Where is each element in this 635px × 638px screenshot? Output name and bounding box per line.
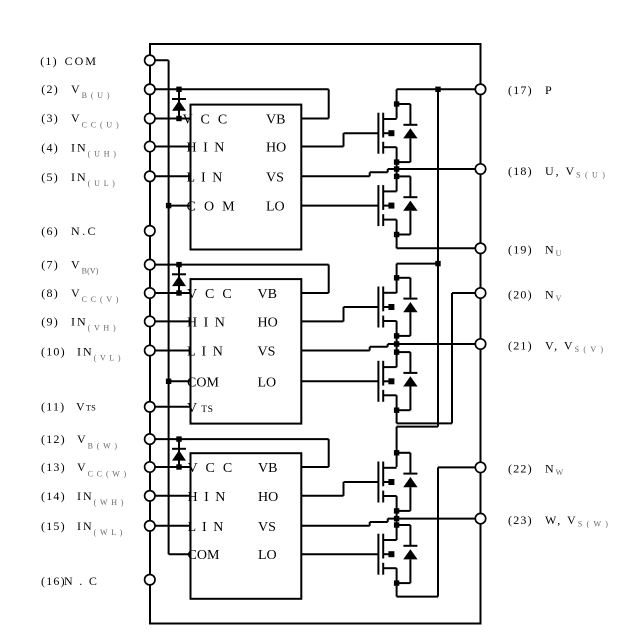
svg-text:COM: COM: [187, 375, 219, 390]
svg-text:H I N: H I N: [187, 315, 226, 330]
svg-text:(5)IN( U L ): (5)IN( U L ): [41, 170, 115, 188]
svg-text:(8)VC C ( V ): (8)VC C ( V ): [41, 286, 119, 304]
svg-text:(21)V, VS ( V ): (21)V, VS ( V ): [508, 338, 604, 354]
svg-text:V C C: V C C: [188, 461, 235, 476]
svg-text:COM: COM: [188, 548, 220, 563]
svg-text:(19)NU: (19)NU: [508, 243, 562, 259]
svg-text:LO: LO: [266, 200, 285, 215]
svg-text:(9)IN( V H ): (9)IN( V H ): [41, 314, 116, 332]
svg-text:(11)VTS: (11)VTS: [41, 400, 96, 414]
svg-text:(6)N.C: (6)N.C: [41, 224, 98, 238]
svg-text:C O M: C O M: [187, 200, 237, 215]
svg-text:VB: VB: [258, 461, 277, 476]
svg-text:VS: VS: [266, 170, 284, 185]
svg-text:L I N: L I N: [187, 345, 224, 360]
svg-text:L I N: L I N: [188, 520, 225, 535]
svg-text:VB: VB: [258, 287, 277, 302]
svg-text:(16)N . C: (16)N . C: [41, 574, 99, 588]
svg-text:VTS: VTS: [187, 401, 213, 416]
svg-text:(17)P: (17)P: [508, 83, 554, 97]
svg-text:VS: VS: [258, 345, 276, 360]
svg-text:H I N: H I N: [187, 141, 226, 156]
svg-text:(22)NW: (22)NW: [508, 462, 564, 478]
svg-text:(1)COM: (1)COM: [40, 54, 98, 68]
svg-text:V C C: V C C: [187, 287, 234, 302]
svg-text:HO: HO: [258, 490, 278, 505]
svg-text:(23)W, VS ( W ): (23)W, VS ( W ): [508, 513, 609, 529]
svg-text:L I N: L I N: [187, 170, 224, 185]
svg-text:LO: LO: [258, 548, 277, 563]
svg-text:HO: HO: [258, 315, 278, 330]
svg-text:(20)NV: (20)NV: [508, 287, 562, 303]
svg-text:(7)VB(V): (7)VB(V): [41, 257, 98, 275]
svg-text:(18)U, VS ( U ): (18)U, VS ( U ): [508, 164, 606, 180]
svg-text:(3)VC C ( U ): (3)VC C ( U ): [41, 111, 119, 129]
svg-text:(12)VB ( W ): (12)VB ( W ): [41, 432, 118, 450]
svg-text:HO: HO: [266, 141, 286, 156]
svg-text:VB: VB: [266, 113, 285, 128]
svg-text:H I N: H I N: [188, 490, 227, 505]
svg-text:LO: LO: [258, 375, 277, 390]
svg-text:(4)IN( U H ): (4)IN( U H ): [41, 140, 117, 158]
svg-text:V C C: V C C: [183, 113, 230, 128]
svg-text:(14)IN( W H ): (14)IN( W H ): [41, 489, 124, 507]
svg-text:VS: VS: [258, 520, 276, 535]
svg-text:(15)IN( W L ): (15)IN( W L ): [41, 519, 123, 537]
svg-text:(13)VC C ( W ): (13)VC C ( W ): [41, 460, 127, 478]
svg-text:(2)VB ( U ): (2)VB ( U ): [41, 82, 110, 100]
svg-text:(10)IN( V L ): (10)IN( V L ): [41, 344, 121, 362]
